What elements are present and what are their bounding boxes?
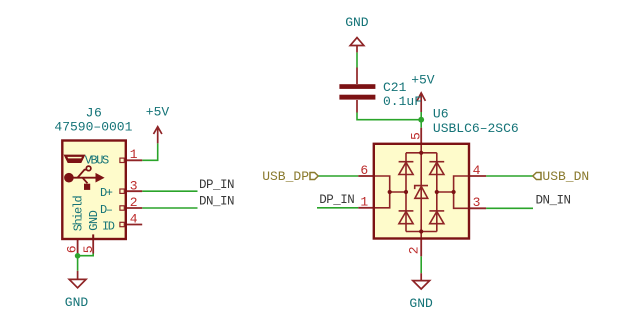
svg-text:4: 4 — [130, 212, 138, 227]
svg-text:GND: GND — [87, 210, 101, 230]
svg-text:C21: C21 — [383, 80, 407, 95]
svg-text:USB_DN: USB_DN — [542, 169, 589, 184]
svg-text:+5V: +5V — [411, 73, 435, 88]
svg-text:GND: GND — [65, 295, 89, 310]
svg-text:5: 5 — [81, 245, 96, 253]
svg-text:3: 3 — [473, 195, 481, 210]
svg-text:3: 3 — [130, 178, 138, 193]
svg-text:ID: ID — [102, 219, 115, 233]
svg-text:+5V: +5V — [146, 104, 170, 119]
svg-text:2: 2 — [130, 195, 138, 210]
svg-text:VBUS: VBUS — [85, 153, 109, 167]
svg-text:DN_IN: DN_IN — [199, 195, 234, 209]
svg-text:GND: GND — [345, 15, 369, 30]
svg-text:5: 5 — [408, 132, 423, 140]
svg-text:Shield: Shield — [71, 196, 85, 232]
svg-text:47590–0001: 47590–0001 — [54, 119, 132, 134]
svg-text:J6: J6 — [86, 106, 103, 121]
svg-text:USBLC6–2SC6: USBLC6–2SC6 — [433, 121, 519, 136]
svg-text:0.1uF: 0.1uF — [383, 94, 422, 109]
svg-text:6: 6 — [65, 245, 80, 253]
svg-text:DN_IN: DN_IN — [536, 193, 571, 207]
svg-text:1: 1 — [130, 147, 138, 162]
svg-text:6: 6 — [360, 163, 368, 178]
svg-text:D+: D+ — [100, 186, 113, 200]
svg-text:USB_DP: USB_DP — [262, 169, 309, 184]
svg-text:1: 1 — [360, 195, 368, 210]
svg-text:DP_IN: DP_IN — [319, 193, 354, 207]
svg-text:DP_IN: DP_IN — [199, 178, 234, 192]
svg-text:D–: D– — [100, 203, 113, 217]
svg-text:GND: GND — [409, 296, 433, 311]
svg-text:2: 2 — [406, 246, 421, 254]
svg-text:4: 4 — [473, 163, 481, 178]
svg-text:U6: U6 — [433, 106, 449, 121]
